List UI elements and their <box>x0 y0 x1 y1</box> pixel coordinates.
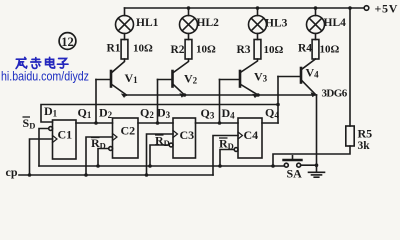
wire V3 base drop <box>219 80 221 124</box>
svg-text:10Ω: 10Ω <box>196 44 216 56</box>
flip-flop C4 <box>238 118 262 158</box>
resistor R2 <box>185 40 192 60</box>
flip-flop C3 <box>173 118 196 158</box>
wire Q4 out <box>262 122 278 124</box>
wire Q1-D2 <box>76 122 113 124</box>
wire lamp4 stub <box>315 8 317 16</box>
svg-text:R5: R5 <box>358 127 373 141</box>
lamp HL4 <box>307 16 325 34</box>
node emitter V3 junction <box>256 93 260 97</box>
flip-flop C2 <box>113 118 139 158</box>
wire R5 bottom to rail <box>273 146 350 166</box>
svg-text:+5V: +5V <box>375 2 399 16</box>
svg-text:3k: 3k <box>358 140 371 152</box>
node cp-C3 <box>145 173 149 177</box>
lamp HL3 <box>249 16 267 34</box>
wire lamp2 stub <box>188 8 190 16</box>
svg-text:R1: R1 <box>107 43 121 55</box>
resistor R3 <box>254 40 261 60</box>
wire V2 base drop <box>157 80 159 124</box>
pin C2 reset bubble <box>109 147 113 151</box>
node SA-ground <box>315 163 319 167</box>
figure number circle 12 <box>59 33 76 50</box>
wire lamp4-R4 <box>315 34 317 40</box>
svg-text:10Ω: 10Ω <box>264 44 284 56</box>
node rail-C4 <box>218 164 222 168</box>
transistor V4 <box>278 59 316 97</box>
wire lamp1 stub <box>124 8 126 16</box>
node cp-C1 <box>28 173 32 177</box>
wire lamp3-R3 <box>257 34 259 40</box>
svg-text:3DG6: 3DG6 <box>322 88 348 100</box>
pin C4 clock triangle <box>238 132 243 139</box>
wire C2 reset <box>98 149 109 167</box>
pin C2 clock triangle <box>113 134 118 141</box>
svg-text:C1: C1 <box>58 128 73 142</box>
watermark chinese chars <box>16 57 68 68</box>
node lamp2 top <box>187 6 191 10</box>
wire V4 base drop <box>277 77 279 124</box>
wire set-reset rail <box>39 165 284 167</box>
svg-text:10Ω: 10Ω <box>133 43 153 55</box>
wire C3 clock <box>147 134 174 175</box>
pin C4 reset bubble <box>234 148 238 152</box>
wire C4 reset <box>220 150 234 167</box>
wire Q3-D4 <box>196 122 239 124</box>
node Q3 junction <box>218 121 222 125</box>
wire lamp1-R1 <box>124 34 126 40</box>
ground <box>309 172 325 177</box>
wire C4 clock <box>213 136 238 176</box>
node lamp3 top <box>256 6 260 10</box>
wire emitter rail to ground <box>316 95 318 172</box>
wire Q2-D3 <box>138 122 173 124</box>
wire C3 reset <box>150 145 169 166</box>
svg-text:hi.baidu.com/diydz: hi.baidu.com/diydz <box>1 70 89 84</box>
node rail-R5 <box>271 164 275 168</box>
wire V1 base drop <box>95 80 97 124</box>
wire R5 top <box>349 8 351 126</box>
lamp HL2 <box>180 16 198 34</box>
svg-text:12: 12 <box>61 35 74 49</box>
svg-text:HL1: HL1 <box>136 17 159 29</box>
svg-text:R3: R3 <box>237 44 251 56</box>
transistor V2 <box>158 59 189 97</box>
svg-text:C2: C2 <box>121 124 136 138</box>
wire S_D input <box>39 129 49 167</box>
pin C3 clock triangle <box>173 131 178 138</box>
wire emitter rail <box>127 94 317 96</box>
resistor R4 <box>312 40 319 60</box>
pin C1 clock triangle <box>53 136 58 143</box>
wire lamp3 stub <box>257 8 259 16</box>
wire Q4 feedback to D1 <box>41 105 278 123</box>
svg-text:10Ω: 10Ω <box>320 44 340 56</box>
wire C2 clock <box>86 137 113 175</box>
wire SA to ground <box>301 164 317 166</box>
resistor R1 <box>121 40 128 60</box>
lamp HL1 <box>116 16 134 34</box>
svg-text:HL2: HL2 <box>197 17 220 29</box>
node rail-C2 <box>96 164 100 168</box>
node cp-C2 <box>84 173 88 177</box>
svg-text:HL4: HL4 <box>324 17 347 29</box>
svg-text:SA: SA <box>287 167 303 181</box>
node R5-rail top <box>348 6 352 10</box>
wire C1 clock <box>30 139 53 175</box>
flip-flop C1 <box>53 120 77 159</box>
pin C3 reset bubble <box>169 143 173 147</box>
svg-text:C3: C3 <box>180 128 195 142</box>
svg-text:R2: R2 <box>171 44 185 56</box>
switch SA <box>284 156 302 167</box>
svg-text:HL3: HL3 <box>265 18 288 30</box>
svg-text:C4: C4 <box>244 128 259 142</box>
wire top +5V rail <box>125 7 365 9</box>
svg-text:cp: cp <box>6 165 18 179</box>
transistor V3 <box>220 59 259 98</box>
node Q2 junction <box>156 121 160 125</box>
node emitter V2 junction <box>183 93 187 97</box>
node Q1 junction <box>94 121 98 125</box>
resistor R5 <box>346 126 354 146</box>
wire cp rail <box>19 174 213 176</box>
wire lamp2-R2 <box>188 34 190 40</box>
node lamp4 top <box>314 6 318 10</box>
node feedback-V4 junction <box>276 103 280 107</box>
node rail-C3 <box>148 164 152 168</box>
pin C1 set bubble <box>49 127 53 131</box>
svg-text:R4: R4 <box>298 43 312 55</box>
node +5V terminal <box>364 6 369 11</box>
transistor V1 <box>96 59 127 97</box>
